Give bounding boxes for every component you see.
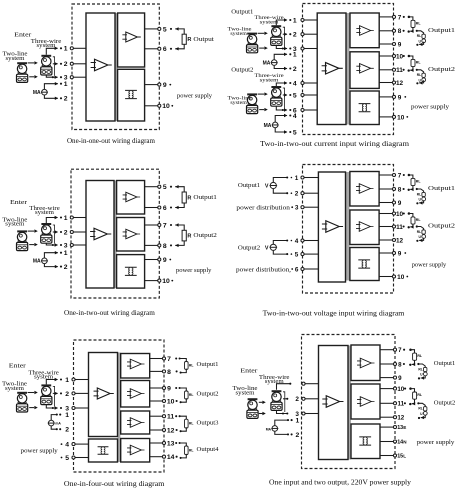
wire V source to terminal 1 (D4) bbox=[273, 176, 292, 182]
svg-text:system: system bbox=[260, 77, 279, 83]
RL label (9/10) bbox=[189, 393, 194, 397]
terminal post 4 (D2) bbox=[301, 81, 304, 84]
Three-wire system label (D3) bbox=[29, 206, 60, 216]
terminal posts 1-3 (D1) bbox=[70, 47, 73, 79]
svg-text:2: 2 bbox=[293, 66, 297, 73]
wire V source to terminal 4 (D4) bbox=[273, 239, 292, 244]
wire op-amp1 to terminal 7 (D2) bbox=[379, 16, 394, 18]
mA terminal 1 label (D5) bbox=[65, 412, 69, 419]
load wiring (9/10) bbox=[175, 387, 186, 403]
terminal 12 label (D2o2) bbox=[396, 80, 404, 87]
caption (D6) bbox=[269, 479, 412, 487]
svg-text:R: R bbox=[187, 233, 191, 239]
svg-text:9: 9 bbox=[398, 250, 402, 257]
svg-text:4: 4 bbox=[65, 442, 69, 449]
svg-text:8: 8 bbox=[163, 243, 167, 250]
meter series resistor label (D4o2) bbox=[417, 230, 421, 234]
wire terminal 2 to main block (D6) bbox=[304, 398, 319, 400]
output op-amp 3 block (D5) bbox=[121, 411, 150, 434]
load wiring (7/8) bbox=[175, 357, 186, 373]
svg-text:L: L bbox=[403, 453, 406, 458]
terminal post 6 (D4) bbox=[301, 267, 304, 270]
two-line transmitter wires (D2b) bbox=[258, 92, 268, 111]
RL label (7/8) bbox=[189, 363, 194, 367]
power transformer block (D3) bbox=[117, 255, 145, 289]
mA label (D5) bbox=[55, 422, 61, 426]
wire terminal 1 to main block (D4) bbox=[303, 177, 319, 179]
svg-text:2: 2 bbox=[64, 229, 68, 236]
power distribution label 1 (D4) bbox=[236, 205, 293, 211]
power transformer block (D2) bbox=[350, 91, 379, 125]
terminal post 5 (D4) bbox=[301, 253, 304, 256]
wire mA source to terminal 2 (D1) bbox=[44, 95, 62, 100]
wire op-amp2 to terminal 12 (D2) bbox=[379, 82, 394, 84]
voltage source V 1 (D4) bbox=[265, 182, 277, 189]
power transformer symbol (D5) bbox=[98, 447, 109, 455]
dashed isolator enclosure (one-in-four-out) bbox=[74, 340, 165, 472]
svg-text:Two-in-two-out voltage input w: Two-in-two-out voltage input wiring diag… bbox=[263, 310, 405, 318]
wire terminal 4 to main block (D2) bbox=[303, 82, 318, 84]
wire op-amp 4 lower output (D5) bbox=[150, 456, 164, 458]
terminal 10 label (D3) bbox=[162, 278, 173, 285]
terminal 8 label (D6o1) bbox=[398, 361, 405, 368]
svg-text:R: R bbox=[187, 37, 191, 43]
svg-text:RL: RL bbox=[417, 192, 421, 196]
output terminals (D2o1) bbox=[392, 15, 395, 45]
power terminals 9/10 (D4) bbox=[392, 251, 395, 278]
power transformer block (D5) bbox=[89, 439, 118, 462]
wire transformer to terminal 9 (D1) bbox=[145, 84, 160, 86]
Two-line system label (D6) bbox=[233, 386, 259, 396]
main amplifier block (D2) bbox=[317, 13, 346, 125]
meter series resistor (D4o2) bbox=[422, 230, 425, 234]
dashed isolator enclosure (two-in-two-out voltage) bbox=[303, 165, 394, 294]
svg-text:3: 3 bbox=[64, 242, 68, 249]
wire op-amp 3 upper output (D5) bbox=[150, 415, 164, 417]
wire mA source to terminal 4 (D2b) bbox=[275, 114, 291, 122]
wire mA source to terminal 2 (D2a) bbox=[274, 66, 291, 71]
svg-text:5: 5 bbox=[163, 26, 167, 33]
svg-text:V: V bbox=[265, 245, 269, 251]
output terminals 5/6 (D3) bbox=[158, 185, 161, 209]
wire terminal 4 to transformer (D5) bbox=[74, 443, 89, 445]
dashed isolator enclosure (one-in-two-out) bbox=[71, 169, 159, 298]
terminal 2 label (D6) bbox=[295, 396, 299, 403]
Enter label (D3) bbox=[10, 199, 28, 206]
terminal 4 label (D5) bbox=[61, 442, 70, 449]
gray separator bar (D5) bbox=[118, 353, 121, 463]
svg-text:6: 6 bbox=[163, 46, 167, 53]
terminal labels (7/8) bbox=[167, 356, 171, 376]
mA current source (D1) bbox=[41, 89, 48, 95]
svg-text:Output1: Output1 bbox=[197, 362, 219, 368]
load resistor RL (7/8) bbox=[185, 362, 189, 370]
terminal 15 L label (D6) bbox=[397, 453, 406, 459]
Output2 label (D6o2) bbox=[434, 400, 456, 407]
mA terminal 1 label (D2a) bbox=[293, 52, 297, 59]
mA terminal 1 label (D3) bbox=[64, 250, 68, 257]
two-line transmitter (D5) bbox=[17, 393, 28, 412]
svg-text:10: 10 bbox=[162, 103, 170, 110]
svg-text:One-in-two-out wiring diagram: One-in-two-out wiring diagram bbox=[64, 309, 155, 317]
three-wire transmitter (D1) bbox=[41, 56, 52, 75]
svg-text:1: 1 bbox=[64, 250, 68, 257]
power supply label (D2) bbox=[411, 104, 450, 111]
wire op-amp2 to terminal 8 (D3) bbox=[145, 244, 160, 246]
wire op-amp 1 lower output (D5) bbox=[150, 370, 164, 372]
RL resistor (D4o1) bbox=[411, 178, 415, 185]
wire op-amp2 to terminal 11 (D4) bbox=[379, 226, 394, 228]
wire mA source to terminal 1 (D3) bbox=[44, 251, 62, 258]
svg-text:10: 10 bbox=[396, 53, 404, 60]
mA terminal 2 label (D6) bbox=[296, 432, 300, 439]
wire transformer to power terminal 10 (D2) bbox=[379, 116, 394, 118]
three-wire transmitter (D2b) bbox=[271, 87, 282, 106]
wire op-amp1 to terminal 5 (D3) bbox=[145, 186, 160, 188]
RL resistor (D2o2) bbox=[411, 59, 415, 66]
output op-amp 1 block (D4) bbox=[350, 172, 379, 207]
Output1 label (D2o1) bbox=[428, 27, 455, 34]
terminal 7 label (D2o1) bbox=[398, 14, 405, 21]
svg-text:system: system bbox=[37, 43, 56, 49]
terminal labels (9/10) bbox=[167, 385, 175, 405]
voltmeter U (D2o2) bbox=[419, 78, 426, 83]
main amplifier block (D1) bbox=[86, 13, 115, 121]
terminal post 2 (D2) bbox=[301, 33, 304, 36]
meter series resistor label (D2o1) bbox=[417, 34, 421, 38]
svg-text:power supply: power supply bbox=[177, 92, 213, 99]
RL branch wiring (D6o2) bbox=[409, 387, 415, 405]
Output3 label (11/12) bbox=[197, 420, 219, 426]
power terminal 9 label (D2) bbox=[398, 94, 406, 101]
output op-amp 3 symbol (D5) bbox=[127, 418, 144, 428]
svg-text:11: 11 bbox=[396, 67, 403, 74]
wire op-amp2 to terminal 12 (D6) bbox=[380, 416, 395, 418]
svg-text:1: 1 bbox=[64, 81, 68, 88]
wire op-amp2 to terminal 11 (D6) bbox=[380, 402, 395, 404]
voltmeter U (D2o1) bbox=[419, 39, 426, 44]
svg-text:9: 9 bbox=[163, 257, 167, 264]
svg-text:system: system bbox=[260, 19, 279, 25]
svg-text:1: 1 bbox=[296, 418, 300, 425]
Output2 input label (D4) bbox=[238, 244, 260, 251]
wire mA source to terminal 1 (D1) bbox=[44, 82, 62, 89]
power transformer symbol (D2) bbox=[359, 104, 371, 112]
svg-text:6: 6 bbox=[163, 205, 167, 212]
terminal post 1 (D2) bbox=[301, 18, 304, 21]
terminal 4 label (D2b) bbox=[293, 80, 297, 87]
output op-amp symbol (D1) bbox=[122, 32, 140, 42]
RL label (13/14) bbox=[189, 448, 194, 452]
load resistor RL (13/14) bbox=[185, 446, 189, 455]
svg-text:system: system bbox=[230, 100, 247, 106]
terminal 5 relabel (D2b) bbox=[0, 0, 1, 1]
svg-text:system: system bbox=[265, 379, 284, 385]
Output label (D1) bbox=[193, 36, 214, 43]
caption (D4) bbox=[263, 310, 405, 318]
meter series resistor (D4o1) bbox=[422, 192, 425, 196]
R label (D3) bbox=[187, 195, 191, 201]
svg-text:1: 1 bbox=[295, 175, 299, 182]
Two-line system label (D2b) bbox=[228, 96, 253, 106]
Output2 label (D4o2) bbox=[428, 223, 455, 230]
wire terminal 2 to main block (D5) bbox=[74, 392, 89, 394]
terminal 6 label (D1) bbox=[163, 46, 167, 53]
output op-amp 2 block (D3) bbox=[117, 218, 145, 252]
mA label (D6) bbox=[266, 427, 272, 431]
wire transmitter to terminal 2 (D1) bbox=[53, 57, 62, 76]
svg-text:Output1: Output1 bbox=[193, 194, 217, 201]
Output1 label (7/8) bbox=[197, 362, 219, 368]
wire mA source to terminal 1 (D5) bbox=[51, 414, 61, 421]
svg-text:E: E bbox=[403, 425, 406, 430]
terminal 1 label (D3) bbox=[64, 215, 68, 222]
svg-text:9: 9 bbox=[398, 94, 402, 101]
svg-text:power supply: power supply bbox=[411, 104, 450, 111]
terminal 5 label (D4) bbox=[295, 252, 299, 259]
terminal labels (11/12) bbox=[167, 414, 175, 435]
mA terminal 2 label (D1) bbox=[64, 96, 68, 103]
wire terminal 1 to main block (D1) bbox=[72, 47, 86, 49]
svg-text:system: system bbox=[5, 386, 25, 392]
wire terminal 5 to main block (D2) bbox=[303, 94, 318, 96]
two-line transmitter wires (D5) bbox=[28, 391, 38, 410]
svg-text:Output4: Output4 bbox=[197, 447, 219, 453]
load wiring (D3) bbox=[170, 223, 184, 247]
output op-amp 1 block (D6) bbox=[351, 345, 380, 381]
svg-text:Enter: Enter bbox=[240, 367, 258, 374]
main amplifier symbol (D4) bbox=[322, 221, 343, 233]
svg-text:Enter: Enter bbox=[10, 199, 28, 206]
power transformer symbol (D4) bbox=[358, 260, 370, 268]
svg-text:5: 5 bbox=[295, 252, 299, 259]
meter series resistor (D6o1) bbox=[424, 367, 427, 371]
svg-text:7: 7 bbox=[167, 356, 171, 363]
load wiring (D1) bbox=[170, 27, 184, 50]
output terminals 5/6 (D1) bbox=[158, 27, 161, 50]
wire transmitter to terminal 1 (D1) bbox=[46, 47, 62, 55]
wire op-amp1 to terminal 9 (D2) bbox=[379, 43, 394, 45]
terminal post 3 (D4) bbox=[301, 206, 304, 209]
wire op-amp1 to terminal 7 (D6) bbox=[380, 349, 395, 351]
svg-text:9: 9 bbox=[398, 41, 402, 48]
terminal post 4 (D4) bbox=[301, 239, 304, 242]
svg-text:14: 14 bbox=[167, 454, 175, 461]
mA terminal 1 label (D1) bbox=[64, 81, 68, 88]
svg-text:15: 15 bbox=[397, 454, 403, 460]
svg-text:7: 7 bbox=[398, 14, 402, 21]
wire terminal 3 to main block (D4) bbox=[303, 206, 319, 208]
terminal 14 N label (D6) bbox=[397, 439, 407, 445]
power terminal 10 label (D2) bbox=[397, 114, 408, 121]
output op-amp 2 symbol (D5) bbox=[127, 389, 144, 399]
power supply label (D3) bbox=[176, 267, 212, 274]
power transformer block (D1) bbox=[118, 69, 145, 121]
svg-text:system: system bbox=[5, 222, 25, 228]
wire terminal 4 to main block (D4) bbox=[303, 240, 319, 242]
two-line transmitter (D2a) bbox=[247, 34, 258, 53]
wire op-amp1 to terminal 9 (D6) bbox=[380, 377, 395, 379]
wire transmitter to top terminal (D6) bbox=[277, 383, 292, 390]
power transformer symbol (D1) bbox=[125, 90, 137, 98]
gray separator bar (D4) bbox=[346, 172, 350, 281]
svg-text:2: 2 bbox=[65, 427, 69, 434]
Output1 label (D4o1) bbox=[428, 185, 455, 192]
terminal 3 label (D1) bbox=[64, 75, 68, 82]
output op-amp 1 block (D3) bbox=[117, 181, 145, 215]
wire transmitter to terminal 3 (D6) bbox=[277, 410, 289, 414]
svg-text:12: 12 bbox=[397, 415, 404, 422]
terminal post top (D6) bbox=[302, 382, 305, 385]
wire terminal 6 to main block (D4) bbox=[303, 268, 319, 270]
load resistor RL (11/12) bbox=[185, 419, 189, 428]
svg-text:Output2: Output2 bbox=[434, 400, 456, 407]
svg-text:RL: RL bbox=[417, 230, 421, 234]
svg-text:12: 12 bbox=[167, 427, 175, 434]
wire op-amp to terminal 6 (D1) bbox=[145, 48, 160, 50]
terminal 3 label (D4) bbox=[295, 205, 299, 212]
wire transformer to terminal 15 (D6) bbox=[380, 455, 395, 457]
mA current source (D2a) bbox=[271, 60, 278, 66]
main amplifier symbol (D5) bbox=[94, 388, 114, 399]
terminal 7 label (D4o1) bbox=[398, 172, 405, 179]
svg-text:Output1: Output1 bbox=[434, 360, 456, 367]
load wiring (13/14) bbox=[175, 442, 186, 459]
terminal 1 label (D2a) bbox=[293, 17, 297, 24]
terminal 4 label (D4) bbox=[295, 238, 299, 245]
terminal 3 label (D3) bbox=[64, 242, 68, 249]
svg-text:system: system bbox=[236, 390, 256, 396]
two-line transmitter wires (D3) bbox=[28, 229, 38, 246]
svg-text:11: 11 bbox=[167, 414, 174, 421]
output op-amp 1 symbol (D2) bbox=[356, 26, 373, 36]
dashed isolator enclosure (one-in-one-out) bbox=[72, 4, 159, 130]
wire op-amp1 to terminal 8 (D6) bbox=[380, 363, 395, 365]
wire transmitter to terminal 3 (D2b) bbox=[276, 106, 291, 112]
caption (D1) bbox=[67, 137, 156, 145]
wire op-amp2 to terminal 10 (D6) bbox=[380, 388, 395, 390]
terminal 9 label (D6o1) bbox=[398, 375, 402, 382]
caption (D2) bbox=[260, 140, 410, 148]
wire transformer to power terminal 10 (D4) bbox=[379, 276, 394, 278]
Output1 label (D3) bbox=[193, 194, 217, 201]
mA terminal 5 label (D2b) bbox=[293, 129, 297, 136]
gray separator bar (D3) bbox=[114, 181, 117, 289]
RL branch wiring (D4o1) bbox=[408, 174, 414, 191]
mA terminal 1 label (D6) bbox=[296, 418, 300, 425]
svg-text:9: 9 bbox=[163, 82, 167, 89]
wire terminal 2 to main block (D4) bbox=[303, 192, 319, 194]
svg-text:10: 10 bbox=[162, 278, 170, 285]
output terminals 7/8 (D3) bbox=[158, 223, 161, 247]
svg-text:Output3: Output3 bbox=[197, 420, 219, 426]
mA current source (D5) bbox=[48, 420, 55, 426]
mA terminal 4 label (D2b) bbox=[293, 113, 297, 120]
svg-text:power distribution,: power distribution, bbox=[236, 267, 292, 273]
svg-text:MA: MA bbox=[263, 60, 271, 66]
voltmeter U (D6o1) bbox=[420, 372, 427, 377]
svg-text:8: 8 bbox=[398, 361, 402, 368]
Output2 label (D2o2) bbox=[428, 66, 455, 73]
svg-text:10: 10 bbox=[396, 211, 404, 218]
svg-text:2: 2 bbox=[64, 61, 68, 68]
svg-text:3: 3 bbox=[295, 205, 299, 212]
wire transmitter to terminal 1 (D5) bbox=[46, 378, 62, 385]
svg-text:8: 8 bbox=[398, 28, 402, 35]
wire terminal 6 to main block (D2) bbox=[303, 109, 318, 111]
wire terminal 3 to main block (D5) bbox=[74, 407, 89, 409]
meter series resistor (D2o1) bbox=[422, 34, 425, 38]
svg-text:12: 12 bbox=[396, 80, 404, 87]
terminal 11 label (D4o2) bbox=[396, 224, 405, 231]
output op-amp 1 symbol (D5) bbox=[127, 359, 144, 369]
two-line transmitter wires (D6) bbox=[259, 401, 266, 416]
svg-text:2: 2 bbox=[65, 391, 69, 398]
power terminals 4/5 (D5) bbox=[72, 443, 75, 460]
gray separator bar (D6) bbox=[348, 346, 351, 460]
terminal 9 label (D2o1) bbox=[398, 41, 402, 48]
svg-text:8: 8 bbox=[398, 186, 402, 193]
meter branch wiring (D2o2) bbox=[416, 69, 424, 85]
svg-text:MA: MA bbox=[33, 259, 41, 265]
RL resistor (D2o1) bbox=[411, 20, 415, 27]
terminal 2 label (D3) bbox=[64, 229, 68, 236]
svg-text:1: 1 bbox=[293, 17, 297, 24]
output op-amp 1 block (D2) bbox=[350, 13, 379, 48]
wire terminal 3 to main block (D6) bbox=[304, 413, 319, 415]
power terminals 9/10 (D1) bbox=[158, 83, 161, 107]
svg-text:5: 5 bbox=[163, 184, 167, 191]
terminal 2 label (D5) bbox=[65, 391, 69, 398]
wire transmitter to terminal 1 (D2a) bbox=[276, 18, 291, 25]
svg-text:MA: MA bbox=[264, 123, 272, 129]
wire terminal 1 to main block (D5) bbox=[74, 379, 89, 381]
two-line transmitter wires (D2a) bbox=[258, 32, 268, 50]
mA label (D3) bbox=[33, 259, 41, 265]
output op-amp 2 symbol (D6) bbox=[357, 397, 374, 407]
svg-text:system: system bbox=[34, 375, 53, 381]
caption (D5) bbox=[64, 480, 165, 488]
wire mA source to terminal 5 (D2b) bbox=[275, 128, 291, 134]
Output2 input label (D2) bbox=[231, 66, 253, 73]
Output2 label (D3) bbox=[193, 232, 217, 239]
terminal 1 label (D1) bbox=[64, 46, 68, 53]
svg-text:RL: RL bbox=[189, 448, 194, 452]
wire transformer to terminal 9 (D3) bbox=[145, 259, 160, 261]
power terminal 10 label (D4) bbox=[397, 274, 408, 281]
terminal 12 label (D4o2) bbox=[396, 237, 404, 244]
svg-text:6: 6 bbox=[295, 266, 299, 273]
terminal posts 1-3 (D5) bbox=[72, 378, 75, 410]
two-line transmitter (D6) bbox=[247, 399, 258, 418]
svg-text:13: 13 bbox=[167, 440, 175, 447]
terminal 7 label (D6o1) bbox=[398, 347, 405, 354]
svg-text:RL: RL bbox=[417, 34, 421, 38]
wire transmitter to terminal 3 (D5) bbox=[46, 404, 62, 409]
wire op-amp 2 upper output (D5) bbox=[150, 387, 164, 389]
terminal post 3 (D2) bbox=[301, 47, 304, 50]
wire op-amp to terminal 5 (D1) bbox=[145, 28, 160, 30]
RL label (D2o1) bbox=[416, 21, 422, 25]
RL resistor (D4o2) bbox=[411, 217, 415, 224]
wire op-amp2 to terminal 10 (D4) bbox=[379, 213, 394, 215]
wire V source to terminal 2 (D4) bbox=[273, 189, 292, 194]
two-line transmitter wires (D1) bbox=[28, 61, 38, 78]
output op-amp 4 symbol (D5) bbox=[127, 445, 144, 455]
svg-text:7: 7 bbox=[398, 347, 402, 354]
wire op-amp1 to terminal 7 (D4) bbox=[379, 174, 394, 176]
wire terminal 2 to main block (D2) bbox=[303, 33, 318, 35]
